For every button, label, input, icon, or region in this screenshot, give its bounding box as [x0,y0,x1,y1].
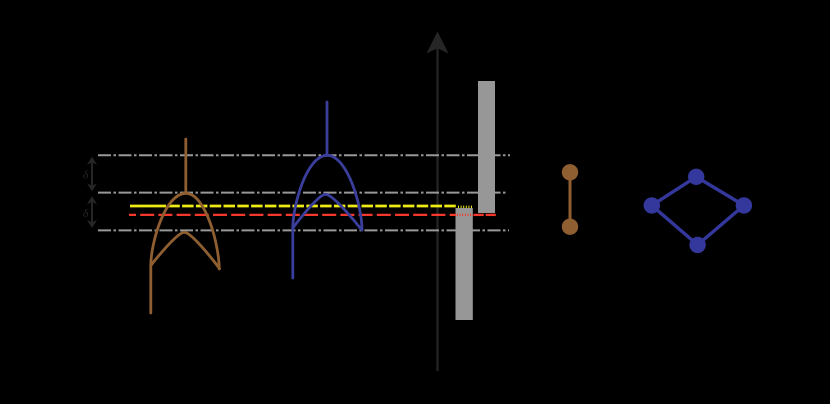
blue plaquette site left [644,197,660,213]
dashdot level line 2 [98,192,508,194]
brown outer band arc [151,193,219,269]
brown top tail [184,139,187,193]
delta arrow 2 (double-headed, between lines 2 and 3) [87,196,97,228]
label delta 1 [83,168,89,182]
blue bottom tail [291,228,294,278]
blue plaquette site bottom [689,237,705,253]
brown dimer site top [562,164,578,180]
label delta 2 [83,206,89,220]
energy axis shaft [436,44,438,371]
blue band curve (K' valley) [293,102,362,278]
blue plaquette edges [652,177,744,245]
brown dimer site bottom [562,219,578,235]
energy axis arrowhead [427,32,449,54]
brown inner band arc [151,232,220,268]
lower gray band bar [456,208,473,320]
svg-text:δ: δ [83,206,89,220]
red level line (dashed) [129,214,496,216]
blue plaquette site right [736,197,752,213]
brown bottom tail [149,266,152,314]
blue plaquette site top [688,169,704,185]
dashdot level line 3 [98,229,509,231]
blue inner band arc [293,194,362,230]
delta arrow 1 (double-headed, between lines 1 and 2) [87,157,97,192]
dashdot level line 1 [98,154,510,156]
svg-text:δ: δ [83,168,89,182]
blue outer band arc [293,155,362,230]
upper gray band bar [478,81,495,213]
blue top tail [326,102,329,155]
brown dimer bond [569,172,572,226]
yellow chemical potential line (dashed) [130,205,474,209]
brown band curve (K valley) [151,139,220,313]
